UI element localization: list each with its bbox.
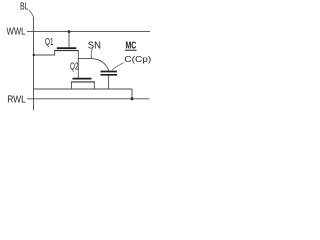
transistor Q2 source leg (71, 82, 73, 89)
wire: BL vertical bit line (33, 17, 35, 110)
transistor Q1 drain lead down to SN (77, 51, 79, 59)
svg-text:WWL: WWL (7, 26, 26, 37)
transistor Q1 gate bar (57, 47, 77, 49)
wire: RWL horizontal rail (27, 98, 150, 100)
node: junction dot Q1 gate on WWL (68, 30, 71, 33)
transistor Q1 source lead to BL (34, 51, 55, 55)
capacitor C top plate (101, 71, 118, 73)
wire: SN horizontal (78, 58, 92, 60)
leader from SN label to storage node (91, 49, 92, 59)
svg-text:SN: SN (88, 40, 101, 51)
svg-text:C(Cp): C(Cp) (124, 55, 151, 64)
svg-text:RWL: RWL (7, 95, 26, 106)
node: junction dot on RWL (131, 97, 134, 100)
wire: WWL horizontal rail (27, 31, 150, 33)
node: junction dot Q1 source on BL (33, 54, 35, 56)
svg-text:BL: BL (20, 2, 29, 13)
transistor Q2 gate bar (73, 78, 92, 80)
transistor Q2 gate stub from SN (77, 59, 79, 78)
transistor Q1 channel (54, 50, 79, 52)
wire: curved arc from SN to capacitor top plate (92, 59, 109, 71)
transistor Q1 gate stub (68, 32, 70, 48)
wire: bottom rail from BL to right drop (34, 88, 133, 90)
svg-text:Q2: Q2 (70, 61, 79, 72)
wire: right drop to RWL (131, 89, 133, 99)
capacitor C bottom plate (101, 74, 118, 76)
svg-text:Q1: Q1 (45, 37, 54, 48)
capacitor C bottom lead (108, 76, 110, 90)
transistor Q2 drain leg (93, 82, 95, 89)
transistor Q2 channel (71, 81, 95, 83)
leader from BL label to bit line (29, 10, 34, 17)
leader from C(Cp) label to capacitor (112, 63, 124, 70)
